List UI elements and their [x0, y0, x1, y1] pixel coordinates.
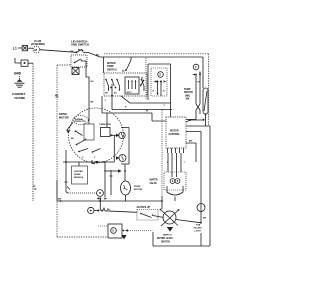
motor connector plug	[97, 190, 104, 197]
unbalance switch S2 dashed box	[71, 55, 87, 67]
svg-text:MOTOR: MOTOR	[170, 131, 179, 133]
svg-text:BU: BU	[96, 55, 100, 57]
wire GRD to ground	[19, 76, 21, 81]
neutral bus wire	[57, 200, 162, 202]
temp switch contact 1	[105, 79, 107, 81]
unbalance switch contacts	[74, 62, 76, 64]
water valve dashed box	[164, 172, 186, 190]
svg-text:DRIVE: DRIVE	[59, 112, 67, 116]
noise filter FL1	[33, 46, 40, 53]
svg-text:AGITATE UP: AGITATE UP	[137, 206, 151, 209]
wire motor lower bus	[63, 161, 114, 163]
wire neutral dashed run	[32, 64, 34, 202]
svg-text:FILLING: FILLING	[194, 228, 202, 230]
timer cam switch	[203, 88, 208, 114]
junction on bus	[99, 198, 101, 200]
wire unbalance switch down to motor	[86, 61, 89, 124]
svg-text:BK: BK	[203, 218, 207, 220]
timer boundary dashed left	[145, 58, 147, 100]
wire plug to neutral line	[28, 62, 33, 64]
ground cabinet frame	[17, 80, 22, 82]
svg-text:(EMPTY): (EMPTY)	[163, 235, 172, 237]
svg-text:L1: L1	[13, 46, 17, 50]
timer junction 4	[195, 74, 197, 76]
pump motor	[121, 181, 131, 195]
svg-text:PROTECTOR: PROTECTOR	[74, 121, 86, 123]
motor internal switch	[75, 130, 77, 132]
bottom return wire	[153, 232, 210, 246]
wire crossing of timer legs	[196, 104, 200, 110]
thermal protector	[73, 116, 89, 125]
wire bus drop to water level switch	[161, 201, 163, 209]
motor terminal enclosure	[121, 128, 129, 165]
wire cam to junction	[205, 114, 207, 126]
service connector box	[108, 224, 122, 238]
svg-text:MOTOR: MOTOR	[134, 189, 143, 191]
svg-text:N: N	[35, 188, 37, 191]
motor run winding	[119, 132, 125, 138]
svg-text:TUB: TUB	[196, 225, 201, 227]
wire right bus	[186, 126, 210, 246]
svg-text:SWITCH: SWITCH	[184, 92, 193, 94]
dashed divider	[161, 110, 163, 196]
wire L1 to fuse	[18, 47, 22, 49]
motor connector plug 3	[88, 207, 94, 213]
temp switch inner block	[125, 77, 139, 94]
wire junction drop	[99, 199, 101, 211]
agitate switch contacts	[140, 213, 142, 215]
timer junction arrows	[157, 81, 159, 83]
svg-text:BK: BK	[58, 199, 62, 201]
motor start winding	[119, 155, 126, 162]
machine boundary dashed top	[104, 54, 209, 126]
wire to agitate switch	[105, 211, 138, 213]
svg-text:BUZZER: BUZZER	[75, 171, 84, 173]
svg-text:BK: BK	[55, 95, 59, 97]
wire stub corner	[92, 160, 95, 164]
wire lid switch to main top wire	[83, 53, 100, 58]
node tick on boundary	[56, 96, 59, 98]
wire top to cam	[202, 57, 204, 88]
water level switch crossing	[163, 211, 176, 224]
connector arrow down	[122, 235, 127, 240]
timer inner dashed box	[151, 68, 167, 96]
wire arrow drop into box	[126, 57, 131, 71]
wire lamp down	[200, 212, 202, 223]
machine boundary dashed left	[57, 65, 108, 237]
water temp switch dashed box	[104, 73, 147, 96]
timer inner box	[148, 64, 171, 117]
svg-text:LIGHT: LIGHT	[195, 231, 202, 233]
motor control bottom pins	[168, 148, 184, 153]
wire inner drop	[104, 162, 106, 197]
wire valve to bus	[161, 196, 163, 201]
wire switch to lamp	[176, 220, 201, 223]
wire pump feed	[110, 170, 112, 195]
svg-text:UNB SWITCH: UNB SWITCH	[71, 43, 89, 47]
wire winding rail	[113, 135, 115, 162]
centrifugal switch block	[84, 124, 94, 140]
wire junction under cam	[186, 120, 204, 122]
motor control right wires	[186, 119, 196, 121]
wire timer box exits	[121, 96, 171, 103]
wire agitate switch to water level switch	[153, 216, 164, 218]
svg-text:W: W	[141, 78, 143, 80]
wire boundary leg	[56, 180, 58, 201]
wire valve legs	[168, 153, 181, 177]
svg-text:W: W	[146, 111, 148, 113]
svg-text:(4M): (4M)	[185, 94, 190, 97]
water level arrow	[167, 227, 173, 232]
tub light lamp	[197, 204, 205, 212]
motor control box	[166, 117, 186, 148]
svg-text:CAPACITOR: CAPACITOR	[99, 123, 111, 126]
wire left leg down	[66, 150, 68, 193]
agitate switch dashed box	[137, 210, 158, 221]
wire filter to lid switch	[40, 50, 76, 53]
wire timer contact left leg	[157, 82, 159, 95]
wire drop to water temp switch	[103, 57, 105, 73]
svg-text:AM: AM	[186, 98, 190, 101]
drive motor M1 dashed circle	[69, 108, 124, 163]
svg-text:SWITCH: SWITCH	[107, 68, 117, 71]
node N tick	[33, 185, 36, 187]
temp switch contact 4	[141, 79, 143, 81]
timer contact 4 circled	[193, 64, 199, 70]
svg-text:TEMP: TEMP	[184, 89, 191, 91]
wire contact4 legs	[196, 75, 200, 121]
wire thermal to arrow	[67, 123, 74, 131]
wire to pump rail	[105, 170, 118, 172]
svg-text:FRAME: FRAME	[15, 96, 26, 100]
svg-text:MODELS): MODELS)	[74, 177, 84, 179]
wire timer contact right leg	[160, 82, 162, 97]
svg-text:MOTOR: MOTOR	[59, 115, 69, 119]
main top wire	[100, 56, 203, 58]
svg-text:(FUSE/BKR): (FUSE/BKR)	[31, 43, 45, 46]
wire lamp to bottom	[200, 233, 202, 246]
svg-text:PUMP: PUMP	[134, 186, 141, 188]
wire winding leg	[124, 164, 126, 181]
wire to motor connector	[68, 192, 97, 194]
svg-text:WATER: WATER	[150, 179, 158, 182]
temp switch contact 2	[116, 79, 118, 81]
wire feed to capacitor	[110, 87, 112, 89]
svg-text:WATER LEVEL: WATER LEVEL	[157, 237, 174, 240]
fuse F1	[22, 45, 27, 50]
fuse block with X	[72, 68, 79, 75]
timer contact W	[143, 80, 145, 82]
wire buzzer stub	[78, 162, 80, 166]
wire pump to bus	[125, 195, 127, 201]
svg-text:GRD: GRD	[14, 72, 22, 76]
svg-text:SWITCH: SWITCH	[161, 241, 170, 243]
svg-text:A B C: A B C	[127, 91, 133, 94]
connector junction	[123, 230, 125, 232]
svg-text:(SOME: (SOME	[74, 174, 81, 176]
motor start switch contacts	[78, 151, 80, 153]
water valve solenoid coils	[170, 179, 175, 184]
lid switch S1	[75, 51, 77, 53]
timer contact 2 circled	[158, 72, 164, 78]
wire fuse to noise filter	[28, 47, 33, 49]
svg-text:BK: BK	[189, 141, 193, 143]
svg-text:VALVE: VALVE	[150, 182, 158, 185]
temp switch contact 3	[111, 79, 113, 81]
dashed leads into connector	[98, 225, 108, 227]
svg-text:CONTROL: CONTROL	[169, 134, 181, 136]
wire valve outlet	[174, 197, 176, 202]
power cord plug	[15, 58, 21, 63]
wire capacitor to winding	[110, 134, 116, 136]
buzzer dashed box	[72, 166, 88, 184]
water valve body	[167, 186, 183, 195]
